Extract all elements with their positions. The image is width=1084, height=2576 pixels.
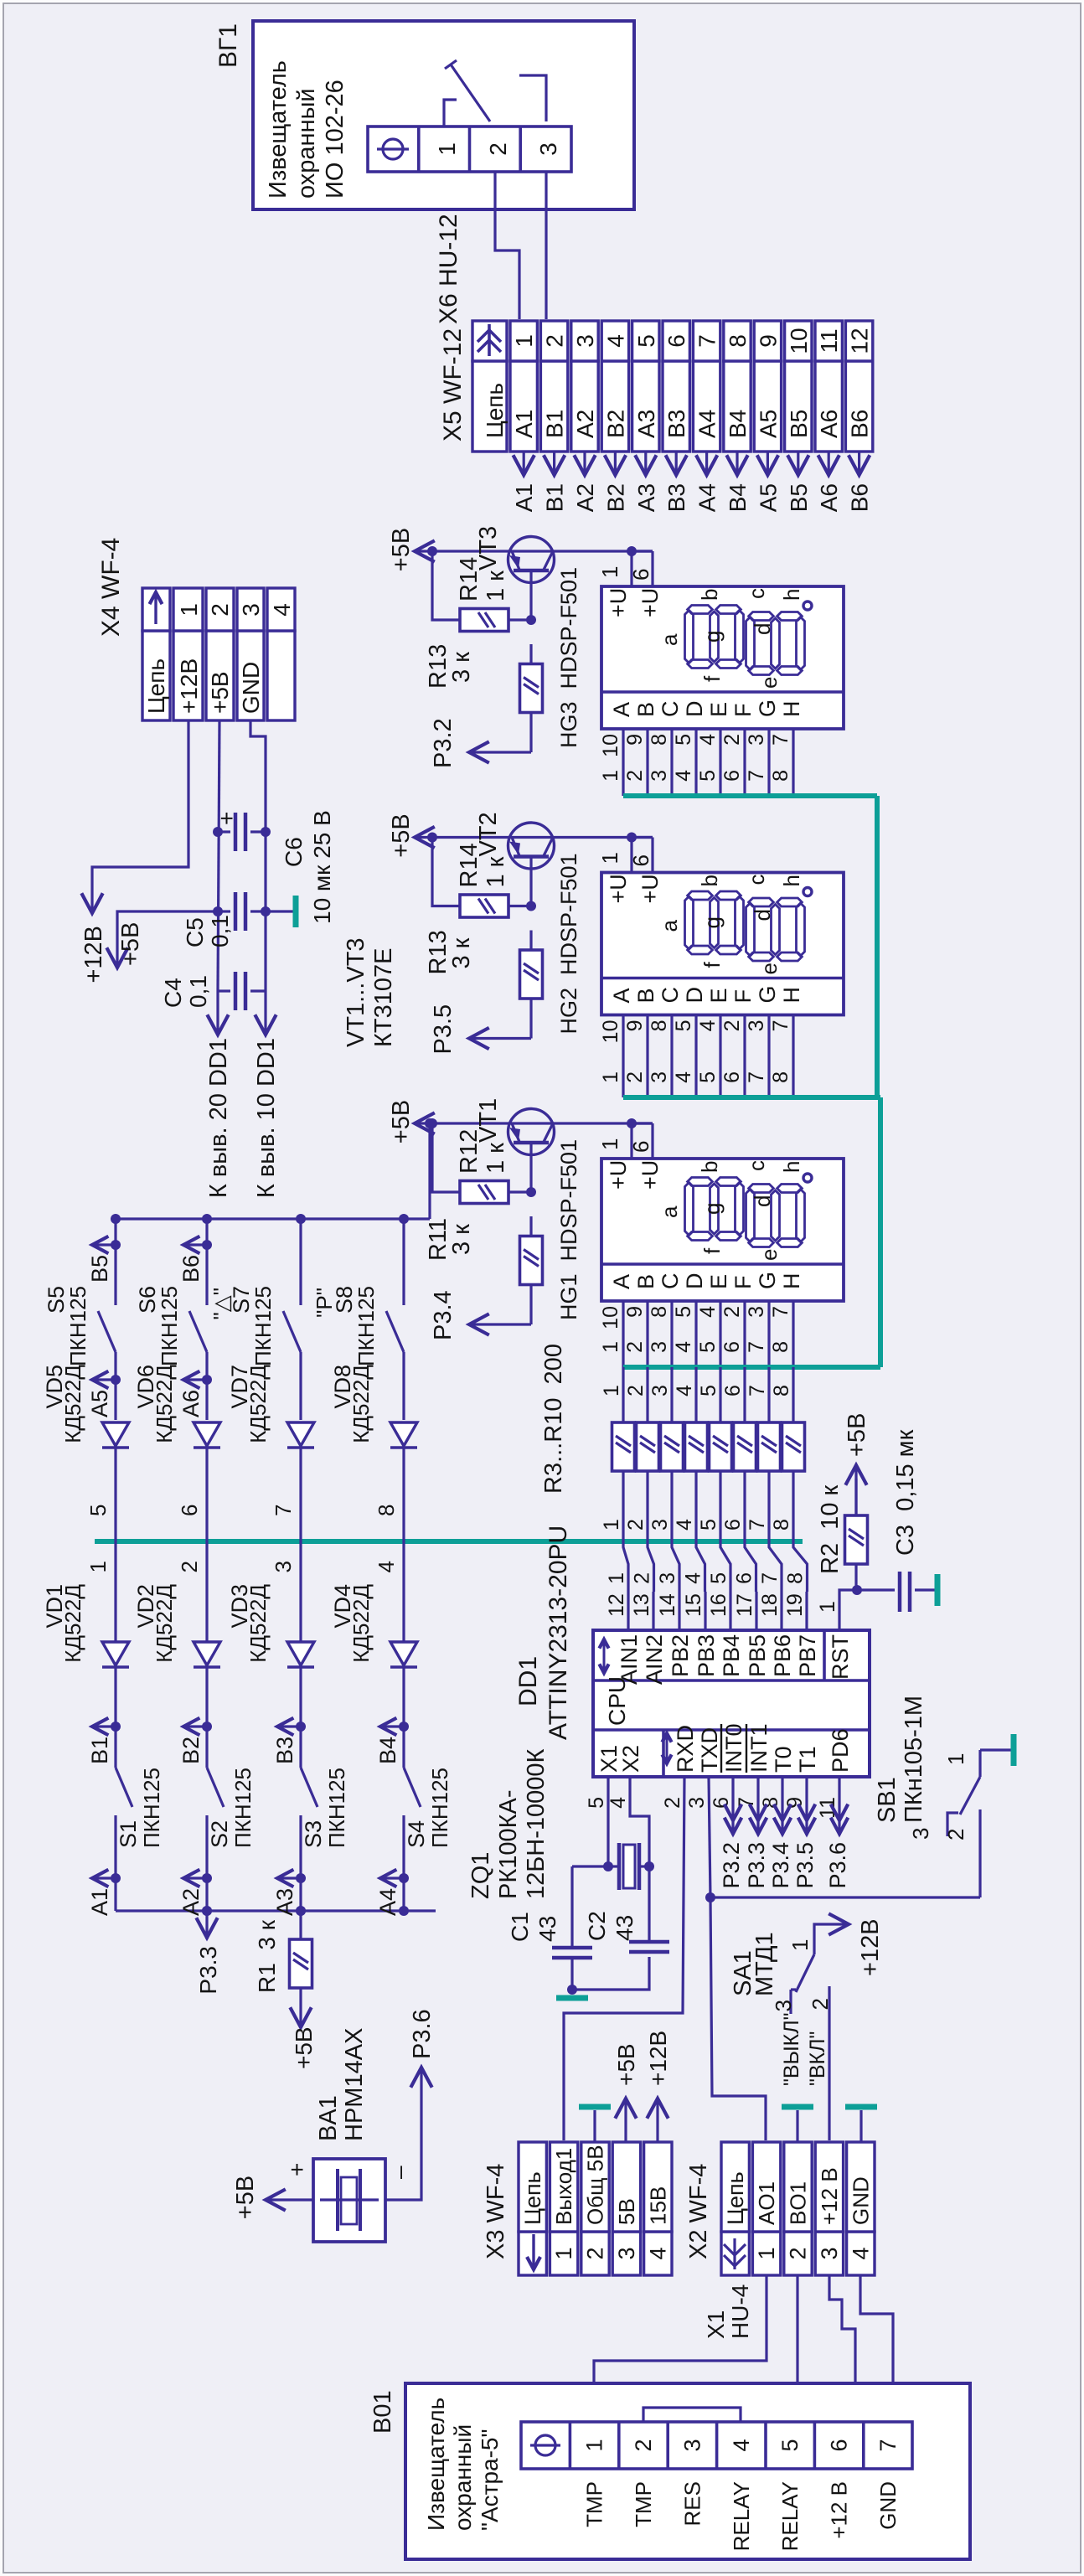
DD1 X1 wire [607,1777,609,1864]
BA1 piezo disc [336,2169,339,2231]
svg-text:B3: B3 [272,1737,297,1764]
svg-text:ПКН125: ПКН125 [427,1768,452,1848]
B01 terminal phi [535,2435,555,2455]
HG3 decimal point [803,601,812,610]
wire R10 to DD1 pin 19 [793,1471,808,1592]
wire VD1 to B flag [114,1667,116,1727]
svg-text:g: g [699,916,725,928]
svg-text:7: 7 [745,1341,768,1353]
HG2 digit 1 segments [685,896,694,949]
svg-text:3: 3 [572,334,598,348]
resistor R2 [845,1515,868,1564]
svg-text:PB7: PB7 [795,1634,820,1677]
flag P3.3 from INT1 [756,1777,759,1835]
DD1 pin 14 stub [678,1592,680,1630]
svg-text:X2 WF-4: X2 WF-4 [685,2164,712,2259]
wire S3 to A flag [299,1815,302,1911]
crystal ZQ1 [617,1843,622,1890]
BA1 P3.6 wire [385,2069,421,2200]
HG3 pin wire 9 [646,729,648,796]
wire collector VT3 [508,550,653,552]
svg-text:7: 7 [735,1797,758,1809]
wire B to switch S3 [299,1727,302,1768]
svg-text:2: 2 [720,1306,744,1318]
left bus junction row 4 [399,1906,409,1916]
wire X2 pin2 to B01 term5 [796,2275,798,2422]
wire row 4 across bus [402,1448,405,1644]
HG1 decimal point [803,1174,812,1182]
svg-text:B1: B1 [542,410,568,438]
svg-text:6: 6 [720,770,744,782]
svg-text:C5: C5 [182,917,208,947]
left bus junction row 3 [296,1906,306,1916]
svg-text:c: c [744,1160,769,1171]
X2 BO1 gnd [796,2110,798,2142]
svg-text:43: 43 [534,1916,560,1942]
svg-text:Цепь: Цепь [723,2171,748,2225]
IC DD1 box [593,1630,870,1777]
svg-text:2: 2 [808,1998,833,2010]
svg-text:C: C [658,1273,683,1290]
svg-text:HU-4: HU-4 [727,2284,753,2339]
svg-text:P3.6: P3.6 [825,1842,850,1889]
svg-text:B01: B01 [369,2390,396,2434]
svg-text:5: 5 [633,334,659,348]
X5 header plug symbol [477,340,501,352]
svg-text:d: d [750,1195,775,1207]
svg-text:1: 1 [599,770,622,782]
svg-text:8: 8 [784,1572,808,1584]
svg-text:A3: A3 [272,1888,297,1916]
X3 pin3 +5V flag [624,2100,627,2142]
svg-text:+5В: +5В [613,2043,639,2086]
X5 pin 11 arrow [828,452,830,473]
svg-text:8: 8 [648,734,671,746]
BG1 switch blade [451,65,490,121]
svg-text:C3 0,15 мк: C3 0,15 мк [892,1429,919,1556]
HG3 pin wire 2 [743,729,746,796]
svg-text:6: 6 [710,1797,733,1809]
diode VD4 [390,1665,417,1668]
svg-text:6: 6 [628,854,653,866]
svg-text:B4: B4 [725,410,751,438]
wire row 4 upper [402,1219,405,1305]
svg-text:КД522Д: КД522Д [245,1365,271,1443]
wire TXD [709,1777,710,1897]
wire row 2 mid [205,1352,208,1420]
diode VD6 [194,1446,220,1448]
svg-text:15В: 15В [645,2186,670,2225]
svg-text:8: 8 [374,1505,399,1516]
HG2 +U pin1 wire [630,838,632,873]
wire base stub VT1 [529,1143,532,1192]
svg-text:8: 8 [759,1797,782,1809]
svg-text:B3: B3 [663,483,689,512]
svg-text:HPM14AX: HPM14AX [341,2028,368,2141]
transistor VT3 [508,537,555,583]
SA1 pin1 elbow [814,1924,847,1954]
svg-text:4: 4 [645,2247,670,2259]
svg-text:"Астра-5": "Астра-5" [477,2429,503,2531]
bus under HG2 [623,1095,880,1100]
wire collector VT2 [508,836,653,839]
svg-text:6: 6 [721,1385,745,1396]
wire base stub VT2 [529,857,532,906]
diode VD3 [287,1665,314,1668]
svg-text:1 к: 1 к [483,570,509,601]
svg-text:1: 1 [787,1939,813,1951]
svg-text:AO1: AO1 [754,2181,779,2225]
wire R12 to base [508,1190,531,1193]
wire B to switch S4 [402,1727,405,1768]
junction collector HG3 pin1 [627,546,637,556]
svg-text:ПКН125: ПКН125 [354,1286,379,1366]
svg-text:2: 2 [485,142,511,156]
svg-text:7: 7 [746,1385,769,1396]
HG3 pin wire 5 [694,729,697,796]
svg-text:ПКн105-1М: ПКн105-1М [901,1696,927,1823]
svg-text:"ВЫКЛ": "ВЫКЛ" [780,2012,803,2086]
svg-text:+12В: +12В [645,2031,671,2086]
svg-text:МТД1: МТД1 [751,1932,778,1996]
svg-text:P3.6: P3.6 [409,2009,436,2059]
wire R6 to DD1 pin 15 [696,1471,705,1592]
svg-text:A6: A6 [816,483,842,512]
svg-text:a: a [657,1205,682,1218]
wire +5V to DD1-20 [216,991,219,1033]
svg-text:b: b [697,875,722,886]
switch S4 blade [404,1768,421,1807]
svg-text:H: H [779,987,804,1004]
wire R1 to +5V [299,1988,302,2026]
svg-text:4: 4 [673,1385,696,1396]
svg-text:1: 1 [605,1572,628,1584]
wire S2 to A flag [205,1815,208,1911]
B flag lower 4 [399,1722,409,1732]
junction C1 gnd [567,1985,577,1995]
svg-text:К выв. 10 DD1: К выв. 10 DD1 [253,1038,280,1198]
HG3 pin wire 10 [622,729,624,796]
wire collector VT1 [508,1122,653,1124]
resistor R8 [734,1422,756,1471]
svg-text:5: 5 [696,1341,720,1353]
SB1 contact pin1 [978,1750,981,1777]
svg-text:3: 3 [656,1572,679,1584]
matrix row 1 junction right [111,1214,121,1224]
gnd bar C5C6 [293,896,299,927]
X5 pin 9 arrow [767,452,769,473]
svg-text:+5В: +5В [207,671,233,714]
svg-text:3: 3 [745,734,768,746]
DD1 RST stub [839,1590,857,1630]
svg-text:+5В: +5В [388,1100,415,1143]
svg-text:+12 В: +12 В [817,2167,842,2225]
wire BG1 pin2 to X5 pin1 [495,172,519,319]
svg-text:ПКН125: ПКН125 [157,1286,182,1366]
svg-text:RES: RES [679,2481,705,2526]
svg-text:2: 2 [786,2247,811,2259]
svg-text:+U: +U [637,1160,663,1190]
wire BG1 pin3 to X5 pin2 [545,172,547,319]
BG1 switch stub pin3 [519,75,546,121]
svg-text:4: 4 [269,603,295,617]
matrix row 2 junction right [202,1214,212,1224]
flag P3.4 [471,1323,531,1325]
svg-text:A: A [609,702,634,717]
svg-text:BA1: BA1 [315,2095,342,2141]
svg-text:INT0: INT0 [721,1723,746,1773]
HG1 pin wire 3 [767,1301,770,1367]
svg-text:G: G [755,1272,780,1289]
svg-text:ИО 102-26: ИО 102-26 [322,80,348,199]
X4 header symbol [154,594,157,624]
svg-text:D: D [682,701,707,718]
capacitor C5 [218,910,230,912]
BG1 terminal phi symbol [383,139,403,159]
svg-text:A6: A6 [178,1390,204,1417]
svg-text:A: A [609,988,634,1003]
svg-text:6: 6 [177,1505,202,1516]
svg-text:e: e [756,963,782,974]
matrix row 3 junction right [296,1214,306,1224]
svg-text:B: B [633,1274,658,1289]
svg-text:2: 2 [623,770,647,782]
HG3 pin wire 7 [792,729,794,796]
svg-text:0,1: 0,1 [207,915,233,947]
SB1 pin2 wire [978,1809,981,1897]
wire RST to C3 [857,1588,895,1591]
switch S5 blade [98,1311,116,1352]
svg-text:+U: +U [637,874,663,903]
svg-text:C1: C1 [507,1912,533,1942]
svg-text:Извещатель: Извещатель [265,60,292,199]
diode VD2 [194,1665,220,1668]
svg-text:16: 16 [707,1593,730,1617]
svg-text:5: 5 [696,1071,720,1083]
svg-text:B: B [633,702,658,717]
wire R7 right [719,1367,721,1422]
svg-text:G: G [755,699,780,717]
A flag lower 1 [111,1873,121,1883]
svg-text:4: 4 [696,734,720,746]
svg-text:3 к: 3 к [448,937,475,968]
svg-text:3: 3 [908,1828,933,1840]
wire base stub VT3 [529,570,532,620]
svg-text:охранный: охранный [293,88,320,199]
wire X2 pin4 to B01 term7 [860,2275,893,2419]
svg-text:f: f [699,675,725,682]
svg-text:A1: A1 [511,410,537,438]
svg-text:RELAY: RELAY [777,2481,803,2551]
HG1 pin wire 7 [792,1301,794,1367]
junction RST node [852,1585,862,1595]
svg-text:PB6: PB6 [770,1634,795,1677]
DD1 pin 12 stub [627,1592,629,1630]
svg-text:PB2: PB2 [668,1634,693,1677]
wire R14 to base [508,905,531,907]
svg-text:4: 4 [682,1572,705,1584]
resistor R3 [612,1422,635,1471]
capacitor C6 polarized [218,830,230,833]
resistor R5 [661,1422,684,1471]
wire gnd to C2 [572,1957,649,1990]
A flag upper 2 [202,1375,212,1385]
svg-text:43: 43 [612,1915,637,1941]
svg-text:P3.3: P3.3 [195,1946,221,1995]
svg-text:6: 6 [827,2439,852,2451]
svg-text:1: 1 [582,2439,607,2451]
svg-text:PB5: PB5 [745,1634,770,1677]
wire R8 to DD1 pin 17 [745,1471,756,1592]
svg-text:8: 8 [769,770,792,782]
BG1 terminal strip [368,126,571,172]
svg-text:Общ 5В: Общ 5В [583,2145,608,2225]
svg-text:+5В: +5В [388,813,415,857]
X5 pin 5 arrow [644,452,647,473]
svg-text:SB1: SB1 [874,1777,901,1823]
resistor R10 [782,1422,805,1471]
wire R8 right [743,1367,746,1422]
svg-text:X6 HU-12: X6 HU-12 [435,214,462,324]
X5 pin 7 arrow [705,452,708,473]
svg-text:X5 WF-12: X5 WF-12 [439,328,467,441]
wire R13 left [529,644,532,663]
X5 pin 3 arrow [583,452,586,473]
svg-text:b: b [697,589,722,601]
HG2 pin wire 5 [694,1015,697,1098]
HG2 pin wire 3 [767,1015,770,1098]
X5 pin 1 arrow [523,452,525,473]
svg-text:3: 3 [648,1341,671,1353]
B flag upper 1 [111,1240,121,1250]
svg-text:1: 1 [511,334,537,348]
resistor R14 [460,895,508,917]
wire X4 +12V [92,720,188,911]
svg-text:B: B [633,988,658,1003]
wire C3 gnd [915,1588,935,1591]
svg-text:7: 7 [746,1519,769,1531]
svg-text:2: 2 [720,1020,744,1032]
wire X4 +5V rail [218,720,219,991]
svg-text:D: D [682,1273,707,1290]
svg-text:4: 4 [607,1797,630,1809]
resistor R11 [520,1236,543,1285]
SB1 blade [960,1777,980,1815]
svg-text:10 мк 25 В: 10 мк 25 В [309,810,335,924]
wire RXD to X3 pin1 [564,1777,684,2140]
junction VT2 base-pullup [427,833,437,843]
capacitor C3 [898,1572,902,1612]
wire R5 right [670,1367,673,1422]
svg-text:P3.5: P3.5 [430,1004,457,1055]
wire +5V to R12 [432,1123,461,1192]
svg-text:H: H [779,1273,804,1290]
wire row 3 mid [299,1352,302,1420]
svg-text:2: 2 [631,1572,654,1584]
svg-text:3: 3 [685,1797,709,1809]
switch S1 blade [116,1768,132,1807]
svg-text:+: + [284,2163,310,2176]
resistor R1 [290,1939,312,1988]
connector X2 table [721,2232,749,2275]
svg-text:3: 3 [648,1519,672,1531]
svg-text:3: 3 [648,1071,671,1083]
svg-text:A3: A3 [633,483,659,512]
svg-text:S3: S3 [301,1820,326,1848]
svg-text:E: E [706,988,731,1003]
wire TXD branch to X2 AO1 [710,1897,766,2140]
svg-text:C2: C2 [584,1911,610,1941]
svg-text:ПКН125: ПКН125 [324,1768,349,1848]
transistor VT2 [508,823,555,869]
DD1 pin 13 stub [652,1592,654,1630]
junction collector HG2 pin1 [627,833,637,843]
svg-text:+12 В: +12 В [827,2481,852,2539]
X3 header arrow [532,2234,534,2268]
svg-text:VT1: VT1 [475,1098,502,1143]
svg-text:PB3: PB3 [694,1634,719,1677]
wire X2 pin1 to B01 term1 [594,2275,767,2422]
svg-text:1: 1 [597,1138,622,1150]
A flag lower 2 [202,1873,212,1883]
svg-text:12БН-10000К: 12БН-10000К [523,1748,550,1899]
wire R11 left [529,1216,532,1235]
svg-text:A4: A4 [375,1888,400,1916]
wire R10 right [792,1367,794,1422]
X5 pin 8 arrow [736,452,738,473]
svg-text:+U: +U [606,1160,631,1190]
switch S3 blade [301,1768,317,1807]
svg-text:Цепь: Цепь [482,383,508,438]
svg-text:8: 8 [725,334,751,348]
svg-text:B4: B4 [375,1737,400,1764]
svg-text:7: 7 [758,1572,782,1584]
svg-text:Выход1: Выход1 [551,2148,576,2225]
HG1 pin wire 9 [646,1301,648,1367]
svg-text:3: 3 [648,770,671,782]
+5V flag VT3 [416,550,508,552]
svg-text:1: 1 [600,1519,623,1531]
svg-text:2: 2 [631,2439,656,2451]
svg-text:+: + [214,812,240,825]
svg-text:B1: B1 [542,483,568,512]
svg-text:охранный: охранный [450,2424,476,2531]
svg-text:h: h [779,1161,804,1173]
svg-text:+U: +U [637,588,663,617]
svg-text:g: g [699,1203,725,1215]
wire R6 right [694,1367,697,1422]
svg-text:ZQ1: ZQ1 [467,1852,494,1899]
svg-text:X2: X2 [618,1745,643,1773]
HG1 pin wire 8 [670,1301,673,1367]
wire +5V to R14 [432,838,461,906]
svg-text:2: 2 [623,1071,647,1083]
capacitor C4 [218,989,230,992]
svg-text:2: 2 [624,1519,648,1531]
SB1 gnd bar [1011,1734,1017,1766]
svg-text:КД522Д: КД522Д [152,1584,177,1663]
gnd drop C5 [266,910,293,912]
svg-text:10: 10 [599,1020,622,1044]
wire S1 to A flag [114,1815,116,1911]
svg-text:4: 4 [672,1071,695,1083]
junction VT1 base-pullup [427,1118,437,1128]
HG2 +U pin6 wire [651,838,653,873]
HG3 +U pin6 wire [651,551,653,586]
resistor R14 [460,609,508,632]
svg-text:+5В: +5В [388,528,415,571]
svg-text:3 к: 3 к [448,652,475,683]
